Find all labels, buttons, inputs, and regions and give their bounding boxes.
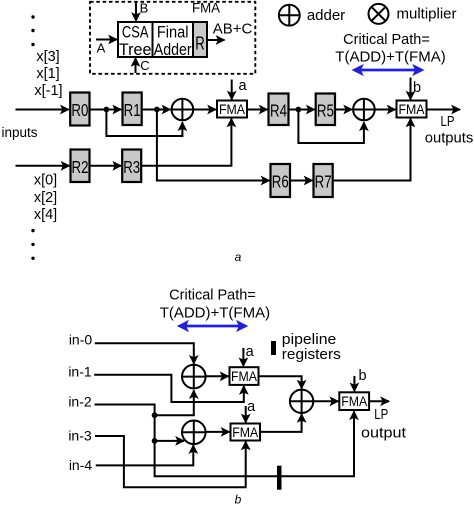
svg-text:Tree: Tree: [119, 40, 152, 59]
svg-text:R1: R1: [124, 100, 141, 120]
svg-text:FMA: FMA: [341, 394, 367, 409]
wire in-2 to adder A3 bottom: [155, 390, 194, 415]
wire FMA U3 to adder A5 top: [259, 376, 302, 388]
pipeline register bar (legend): [271, 341, 276, 355]
wire FMA U1 to R4: [247, 109, 268, 111]
adder A2: [353, 99, 375, 121]
wire adder A4 to FMA U4: [206, 431, 230, 433]
svg-text:CSA: CSA: [122, 23, 149, 42]
register R1: [123, 93, 142, 126]
wire in-4 to adder A4 bottom: [96, 445, 194, 465]
coefficient b arrow into FMA U2: [410, 78, 412, 100]
svg-text:FMA: FMA: [399, 102, 425, 117]
coefficient a arrow into FMA U3: [242, 348, 244, 366]
node after R1: [154, 107, 160, 113]
svg-text:registers: registers: [282, 347, 341, 363]
CSA Tree / Final Adder box: [118, 22, 193, 57]
wire in-1 to FMA U3 bottom: [94, 375, 244, 402]
register R2: [71, 150, 90, 183]
critical path double arrow (bottom): [180, 325, 245, 328]
wire R6 to R7: [290, 180, 313, 182]
svg-text:LP: LP: [374, 406, 388, 423]
wire R2 to R3: [90, 165, 122, 167]
bypass wire R4 to adder A2 bottom: [298, 110, 364, 144]
svg-text:LP: LP: [441, 113, 455, 130]
input C arrow: [135, 58, 137, 73]
svg-text:R7: R7: [315, 172, 332, 192]
input wire to R2: [16, 165, 70, 167]
svg-text:x[-1]: x[-1]: [34, 83, 62, 99]
node in-2 branch 2: [152, 438, 158, 444]
wire in-2 trunk: [95, 405, 355, 477]
svg-text:a: a: [247, 399, 256, 415]
pipeline register bar on wire: [277, 466, 282, 490]
node after R4: [296, 107, 302, 113]
input A arrow: [96, 39, 117, 41]
svg-text:R0: R0: [71, 100, 88, 120]
svg-text:outputs: outputs: [425, 130, 474, 147]
svg-text:in-2: in-2: [68, 394, 92, 410]
FMA U1: [217, 101, 247, 118]
output wire LP: [427, 109, 461, 111]
svg-text:R5: R5: [317, 100, 334, 120]
svg-text:Critical Path=: Critical Path=: [169, 288, 256, 304]
wire adder A3 to FMA U3: [206, 375, 229, 377]
svg-text:R: R: [195, 34, 205, 54]
FMA U2: [397, 101, 427, 118]
svg-text:C: C: [140, 58, 149, 73]
register R3: [122, 150, 141, 183]
wire R5 to adder A2: [335, 109, 352, 111]
wire R1 node to R6: [157, 110, 270, 181]
output wire LP (bottom): [369, 400, 389, 402]
adder A4: [182, 421, 206, 445]
svg-text:a: a: [246, 344, 255, 360]
coefficient a arrow into FMA U4: [245, 406, 247, 423]
coefficient b arrow into FMA U5: [353, 376, 355, 391]
FMA U5: [339, 392, 369, 410]
wire in-0 to adder A3 top: [95, 343, 194, 364]
input wire to R0: [16, 109, 69, 111]
svg-text:a: a: [235, 250, 242, 264]
ellipsis dots top: [31, 15, 34, 18]
adder A5: [290, 390, 313, 413]
wire FMA U4 to adder A5 bottom: [260, 414, 302, 432]
svg-text:FMA: FMA: [232, 425, 258, 440]
svg-text:multiplier: multiplier: [396, 6, 456, 23]
svg-text:T(ADD)+T(FMA): T(ADD)+T(FMA): [335, 49, 445, 66]
adder A1: [172, 99, 194, 121]
svg-text:FMA: FMA: [231, 369, 257, 384]
svg-text:x[3]: x[3]: [36, 49, 59, 65]
svg-text:R2: R2: [72, 157, 89, 177]
svg-text:x[2]: x[2]: [34, 190, 57, 206]
svg-text:x[4]: x[4]: [34, 207, 57, 223]
svg-text:in-3: in-3: [68, 428, 92, 444]
bypass wire R0 to adder A1 bottom: [106, 110, 182, 137]
svg-text:B: B: [140, 1, 149, 16]
svg-text:adder: adder: [307, 7, 345, 24]
critical path double arrow (top): [355, 69, 421, 72]
wire in-2 to adder A4 left: [155, 440, 184, 442]
svg-text:Final: Final: [157, 23, 189, 42]
svg-text:R6: R6: [272, 172, 289, 192]
wire R3 to FMA U1 bottom: [141, 119, 231, 166]
multiplier legend symbol: [369, 4, 389, 24]
svg-text:b: b: [235, 493, 242, 506]
wire adder A5 to FMA U5: [313, 400, 338, 402]
node in-2 branch 1: [152, 412, 158, 418]
svg-text:x[0]: x[0]: [34, 173, 57, 189]
svg-text:FMA: FMA: [219, 102, 245, 117]
svg-text:b: b: [358, 368, 366, 384]
svg-text:FMA: FMA: [192, 0, 221, 16]
ellipsis dots bottom: [31, 229, 34, 232]
node after R0: [104, 107, 110, 113]
svg-text:AB+C: AB+C: [213, 21, 253, 38]
FMA inset dashed box: [90, 2, 255, 74]
svg-text:in-4: in-4: [69, 457, 93, 473]
coefficient a arrow into FMA U1: [231, 80, 233, 100]
wire R0 to R1: [90, 109, 122, 111]
adder legend symbol: [279, 5, 300, 26]
svg-text:A: A: [97, 41, 106, 56]
svg-text:in-0: in-0: [69, 332, 93, 348]
register R6: [271, 164, 291, 197]
register R4: [269, 94, 289, 126]
svg-text:b: b: [413, 80, 421, 96]
FMA U3: [230, 367, 259, 385]
output AB+C arrow: [207, 39, 225, 41]
svg-text:Adder: Adder: [154, 40, 192, 59]
svg-text:in-1: in-1: [68, 364, 92, 380]
svg-text:R4: R4: [270, 100, 287, 120]
register R0: [70, 93, 89, 126]
svg-text:T(ADD)+T(FMA): T(ADD)+T(FMA): [160, 305, 270, 322]
wire R1 to adder A1: [142, 109, 171, 111]
svg-text:x[1]: x[1]: [36, 66, 59, 82]
svg-text:pipeline: pipeline: [282, 332, 337, 348]
adder A3: [182, 365, 206, 389]
FMA U4: [231, 424, 261, 441]
svg-text:output: output: [361, 425, 407, 442]
wire adder A1 to FMA U1: [193, 109, 216, 111]
register R (inset): [193, 22, 207, 57]
wire in-3 to FMA U4 bottom: [95, 436, 246, 487]
input B arrow: [135, 3, 137, 22]
svg-text:R3: R3: [123, 157, 140, 177]
svg-text:Critical Path=: Critical Path=: [343, 32, 430, 48]
svg-text:a: a: [238, 78, 247, 94]
register R7: [314, 164, 333, 197]
wire R4 to R5: [289, 109, 315, 111]
register R5: [316, 94, 335, 126]
wire adder A2 to FMA U2: [375, 109, 396, 111]
wire R7 to FMA U2 bottom: [333, 119, 411, 181]
svg-text:inputs: inputs: [1, 125, 37, 140]
